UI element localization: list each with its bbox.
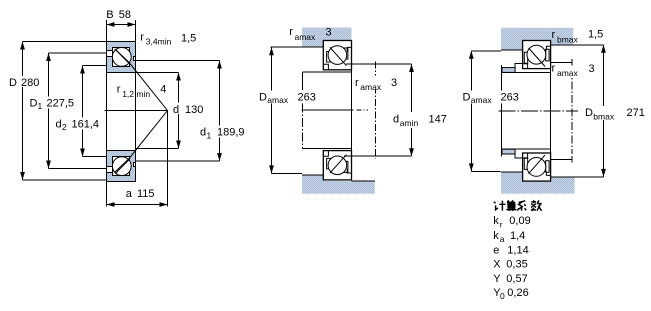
cage bar right [546,49,549,61]
svg-text:227,5: 227,5 [47,97,75,109]
svg-text:0: 0 [500,291,505,301]
svg-text:d: d [173,104,179,116]
svg-text:r: r [500,219,503,229]
housing bottom right part [551,177,575,194]
ball [527,45,546,64]
axis dash-dot right [499,110,579,112]
svg-text:a: a [126,188,133,200]
dimension d1: extension bottom [136,160,220,162]
dimension d2: extension top [83,65,107,67]
dimension D: bottom arrow [20,172,25,180]
label Damax 263 (right) [462,91,520,104]
svg-text:D: D [463,91,471,103]
svg-text:263: 263 [501,91,519,103]
svg-text:bmax: bmax [557,35,579,45]
ball contact diagonal [115,49,128,63]
dimension a: line [107,204,168,206]
housing bottom shoulder top edge [501,171,523,173]
dimension a: left arrow [107,202,115,207]
dimension D: extension bottom [23,179,107,181]
dimension damin: extension top [346,63,412,65]
dimension D1: bottom arrow [46,161,51,169]
shaft seat line top [303,71,351,73]
shaft seat line bottom [501,148,550,150]
svg-text:r: r [140,31,144,43]
dimension Damax: extension bottom [471,170,500,172]
char suan (算) [506,200,516,211]
svg-text:r: r [289,26,293,38]
dimension a: right arrow [160,202,168,207]
right bearing section top (simplified) [523,41,551,69]
dimension d2: bottom arrow [80,149,85,157]
svg-text:amax: amax [557,68,579,78]
svg-text:d: d [56,118,62,130]
svg-text:X: X [493,259,501,271]
washer step to inner ring top [515,64,523,68]
svg-text:0,35: 0,35 [506,259,527,271]
dimension damin: extension bottom [344,155,412,157]
ball contact diagonal [529,48,545,67]
contact angle line upper [115,49,168,111]
housing bottom shoulder left [501,172,523,194]
dimension D1: extension bottom [49,168,107,170]
dimension d1: extension top [136,60,220,62]
bearing left face line [106,20,108,207]
svg-text:1,14: 1,14 [507,245,528,257]
dimension d1: bottom arrow [217,153,222,161]
washer left face line [501,65,503,157]
axis dash-dot continuation [357,109,369,111]
housing top shoulder bottom edge [302,46,323,48]
dimension d: top arrow [176,73,181,81]
svg-text:1,2 min: 1,2 min [122,89,150,99]
dimension D: top arrow [20,42,25,50]
dimension Damax: extension top [471,50,501,52]
dimension D: extension top [23,41,107,43]
shaft seat line bottom [303,147,351,149]
dimension Damax: extension bottom [272,172,303,174]
corner step bottom-left [523,63,528,68]
housing bottom shoulder top edge [302,174,323,176]
dimension Damax: bottom arrow [469,163,474,171]
middle bearing section top (simplified) [323,41,351,70]
svg-text:r: r [552,29,556,41]
svg-text:4: 4 [160,84,166,96]
dimension D1: extension top [49,52,107,54]
svg-text:e: e [493,245,499,257]
damin extension stub into bottom section [344,155,352,157]
housing bottom block under bearing [501,181,551,194]
contact angle line lower [115,111,168,173]
bearing section bottom (mirrored) [107,151,136,182]
cage bar left [524,52,527,64]
svg-text:D: D [30,97,38,109]
washer step to inner ring bottom [515,154,523,158]
dimension Dbmax: vertical line [603,45,605,177]
cage bar left [327,52,331,62]
svg-text:amax: amax [360,82,382,92]
dimension Damax: extension top [271,46,303,48]
housing top band [302,28,352,41]
svg-text:amax: amax [267,95,289,105]
corner step bottom-left [324,64,329,69]
char shu (数) [531,200,542,211]
dimension Damax: vertical line [470,51,472,172]
shaft shoulder face dash-dot line [374,62,376,159]
svg-text:d: d [200,126,206,138]
svg-text:amax: amax [295,32,317,42]
dimension Damax: top arrow [469,51,474,59]
svg-text:1: 1 [38,101,43,111]
heading (Chinese) drawn as strokes [494,200,542,211]
svg-text:161,4: 161,4 [72,118,100,130]
housing top right part [551,28,574,45]
housing bottom shoulder [302,175,323,182]
dimension D1: top arrow [46,53,51,61]
dimension Dbmax extension bottom / housing right top edge [551,176,604,178]
axis line [105,110,168,112]
char xi (系) [517,201,526,211]
svg-text:k: k [493,230,499,242]
label D1 227,5 [28,97,76,109]
corner step top-right [347,47,351,51]
svg-text:130: 130 [185,104,203,116]
dimension D1: vertical line [48,53,50,169]
housing bottom block [302,181,375,194]
svg-text:263: 263 [298,91,316,103]
label d 130 [172,103,204,115]
housing top shoulder left [501,28,523,50]
bearing right face line [135,20,137,181]
svg-text:r: r [355,77,359,89]
dimension damin: vertical line [411,64,413,156]
cage bar right [344,48,348,59]
label damin 147 [392,112,446,128]
axis line middle [302,109,354,111]
svg-text:3: 3 [326,27,332,39]
fillet dash-dot vertical [571,68,573,154]
svg-text:a: a [500,234,505,244]
svg-text:D: D [9,77,17,89]
dimension d: extension bottom [136,148,179,150]
svg-text:3: 3 [589,63,595,75]
svg-text:115: 115 [137,188,155,200]
dimension Damax: top arrow [269,47,274,55]
char ji (计) [494,201,506,211]
damin extension stub into top section [346,63,352,65]
svg-text:r: r [552,63,556,75]
svg-text:k: k [493,215,499,227]
svg-text:D: D [585,107,593,119]
right shoulder notch [134,57,136,61]
dimension B: line [107,24,136,26]
housing bottom seat edge right of bearing [352,180,375,182]
corner step top-right [546,46,550,50]
svg-text:amax: amax [471,95,493,105]
housing top shoulder bottom edge [501,49,523,51]
svg-text:1,5: 1,5 [181,33,196,45]
bearing right face silhouette [550,41,552,182]
dimension d: bottom arrow [176,141,181,149]
ball [328,46,347,65]
svg-text:0,57: 0,57 [506,273,527,285]
shaft left end face line (dash-dot lower part) [302,104,304,149]
label Dbmax 271 [584,106,647,120]
svg-text:0,26: 0,26 [507,287,528,299]
shaft washer bottom (blue bar) [502,149,515,154]
housing top shoulder [302,40,323,47]
svg-text:147: 147 [429,113,447,125]
cavity between rings [113,48,130,67]
dimension Dbmax: bottom arrow [601,169,606,177]
shaft seat line top [501,71,550,73]
shaft washer top (blue bar) [502,68,515,73]
dimension d: vertical line [178,73,180,149]
svg-text:amin: amin [400,118,419,128]
svg-text:189,9: 189,9 [217,126,245,138]
svg-text:B: B [106,9,113,21]
svg-text:r: r [117,84,121,96]
ball [112,48,131,67]
right bearing section bottom (mirrored) [523,153,551,181]
svg-text:58: 58 [119,9,131,21]
dimension Dbmax extension top / housing right bottom edge [551,44,604,46]
left side gap [107,51,113,57]
label ramax 3 (shaft fillet, middle) [354,76,399,90]
dimension Dbmax: top arrow [601,45,606,53]
dimension d2: vertical line [82,66,84,157]
svg-text:bmax: bmax [593,112,615,122]
label Damax 263 [258,91,318,104]
svg-text:Y: Y [493,273,501,285]
label ramax 3 (right drawing) [552,66,583,78]
label d2 161,4 [54,118,101,130]
svg-text:1,4: 1,4 [510,230,525,242]
dimension d1: top arrow [217,61,222,69]
ball contact diagonal [330,47,347,65]
dimension d2: extension bottom [83,156,107,158]
dimension Damax: bottom arrow [269,165,274,173]
bearing right face silhouette [351,41,353,181]
svg-text:3,4min: 3,4min [146,37,172,47]
bearing section top (outer ring, inner ring, ball) [107,42,136,73]
dimension d2: top arrow [80,66,85,74]
dimension d1: vertical line [219,61,221,162]
dimension D: vertical line [22,42,24,181]
middle bearing section bottom (mirrored) [323,151,351,180]
rings blue body [107,42,136,73]
dimension d: extension top [136,72,179,74]
svg-text:d: d [393,113,399,125]
svg-text:2: 2 [62,122,67,132]
shaft fillet reference line bottom with tick [551,158,573,160]
label D 280 [7,76,40,87]
svg-text:280: 280 [21,77,39,89]
svg-text:1,5: 1,5 [588,29,603,41]
dimension Damax: vertical line [271,47,273,173]
svg-text:271: 271 [627,107,645,119]
svg-text:D: D [259,91,267,103]
dimension B: right arrow [128,22,136,27]
svg-text:0,09: 0,09 [509,215,530,227]
dimension B: left arrow [107,22,115,27]
svg-text:3: 3 [391,77,397,89]
dimension damin: bottom arrow [409,148,414,156]
shaft left end face line (solid upper part) [302,72,304,90]
dimension damin: top arrow [409,64,414,72]
dimension a: right extension from contact apex [167,111,169,207]
label d1 189,9 [199,126,246,138]
svg-text:1: 1 [207,130,212,140]
housing top band over bearing [501,28,551,41]
shaft fillet reference line top with tick [551,61,573,63]
